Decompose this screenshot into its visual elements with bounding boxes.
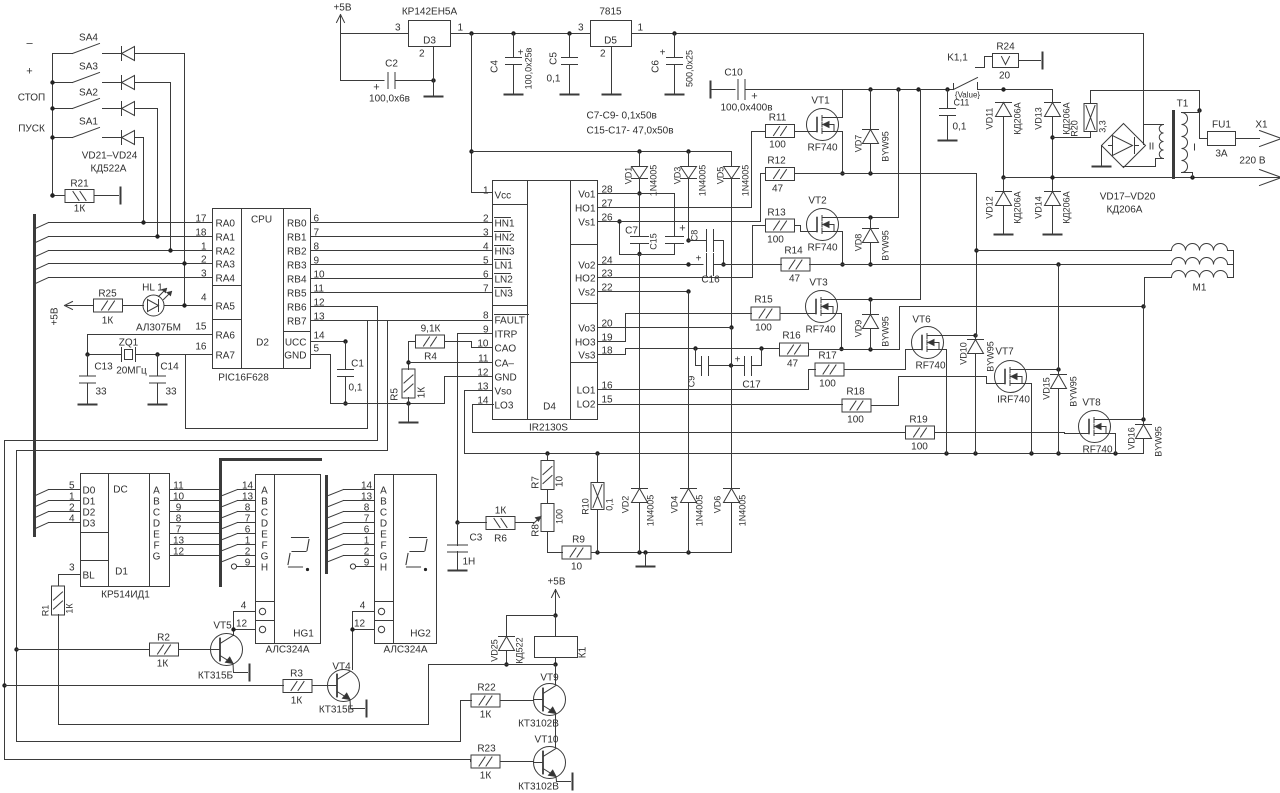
- svg-text:RA0: RA0: [216, 219, 236, 230]
- fuse FU1: [1200, 111, 1208, 139]
- svg-text:1К: 1К: [102, 316, 114, 327]
- svg-text:33: 33: [96, 387, 108, 398]
- svg-text:+: +: [26, 66, 32, 78]
- svg-text:VD10: VD10: [959, 342, 969, 365]
- svg-text:VD5: VD5: [716, 167, 726, 185]
- svg-text:VD17–VD20: VD17–VD20: [1100, 192, 1156, 203]
- capacitor C14: [157, 355, 159, 376]
- svg-text:LO1: LO1: [577, 386, 596, 397]
- svg-text:RB4: RB4: [287, 275, 307, 286]
- svg-text:C: C: [153, 508, 160, 519]
- wire rail1 to R3: [5, 685, 284, 687]
- resistor R24: [976, 57, 993, 68]
- wire wrap RA7-RB7 y428: [186, 355, 368, 429]
- wire GND pin5 down: [311, 355, 331, 404]
- wire vd bottom rail y552: [640, 552, 732, 554]
- svg-text:C: C: [261, 508, 268, 519]
- wire HO3 pin19 to R15: [598, 314, 752, 342]
- capacitor C6: [674, 34, 676, 58]
- wire LO3 pin14 wrap to R19: [473, 405, 906, 433]
- transistor VT10: [534, 747, 566, 779]
- svg-text:R5: R5: [390, 388, 401, 401]
- mosfet VT7: [995, 361, 1027, 393]
- svg-text:G: G: [153, 552, 161, 563]
- svg-text:1: 1: [201, 242, 207, 253]
- svg-text:КТ315Б: КТ315Б: [198, 671, 234, 682]
- wire HG2 E: [329, 534, 344, 540]
- svg-text:47: 47: [789, 274, 801, 285]
- svg-text:3: 3: [483, 228, 489, 239]
- wire LO2 pin15 to R18: [598, 404, 843, 406]
- svg-text:X1: X1: [1255, 120, 1268, 131]
- svg-text:100: 100: [819, 379, 836, 390]
- svg-text:1К: 1К: [417, 387, 428, 399]
- wire HG1 A: [223, 490, 238, 496]
- svg-text:R12: R12: [767, 156, 786, 167]
- svg-text:RA7: RA7: [216, 351, 236, 362]
- resistor R7: [547, 454, 549, 461]
- svg-text:8: 8: [483, 311, 489, 322]
- svg-text:33: 33: [166, 387, 178, 398]
- svg-text:1N4005: 1N4005: [646, 495, 656, 527]
- svg-text:220 В: 220 В: [1239, 156, 1265, 167]
- svg-text:100: 100: [755, 323, 772, 334]
- svg-text:1Н: 1Н: [463, 557, 476, 568]
- svg-text:1: 1: [69, 492, 75, 503]
- wire C7/C15 bottom to Vs1: [620, 222, 675, 255]
- svg-text:C16: C16: [701, 275, 720, 286]
- svg-text:47: 47: [772, 184, 784, 195]
- wire wrap rail1 (RB6 net): [5, 441, 471, 760]
- wire rail D3 to D5: [451, 33, 591, 35]
- svg-text:100,0х6в: 100,0х6в: [369, 94, 410, 105]
- arrow 220V bottom: [1260, 170, 1280, 186]
- svg-text:R8: R8: [531, 524, 542, 537]
- wire D1 out G: [170, 555, 220, 557]
- wire HO1 pin27 to R11: [598, 132, 752, 208]
- svg-text:D3: D3: [423, 36, 436, 47]
- svg-text:5: 5: [483, 256, 489, 267]
- resistor R12: [766, 168, 795, 181]
- diode VD7: [870, 90, 872, 130]
- svg-text:VT6: VT6: [912, 315, 931, 326]
- wire VT7 source: [1022, 384, 1032, 454]
- svg-text:+: +: [679, 223, 685, 235]
- wire VD5col to C9/C17 mid: [731, 328, 733, 366]
- svg-text:C17: C17: [742, 380, 761, 391]
- svg-text:R19: R19: [909, 415, 928, 426]
- svg-text:GND: GND: [284, 351, 306, 362]
- svg-text:11: 11: [173, 481, 184, 492]
- diode of SA1 (VD21-VD24): [109, 137, 122, 139]
- switch SA4: [53, 53, 73, 55]
- svg-text:F: F: [261, 541, 267, 552]
- svg-text:I: I: [1193, 143, 1196, 154]
- svg-text:4: 4: [69, 514, 75, 525]
- svg-text:1N4005: 1N4005: [741, 165, 751, 197]
- diode of SA4 (VD21-VD24): [109, 53, 122, 55]
- svg-text:VD2: VD2: [621, 496, 631, 514]
- svg-text:R25: R25: [98, 289, 117, 300]
- transistor VT4: [328, 670, 360, 702]
- switch SA2: [53, 108, 73, 110]
- resistor R11: [766, 125, 795, 138]
- svg-text:ITRP: ITRP: [495, 330, 518, 341]
- wire UCC to C1: [311, 341, 346, 343]
- svg-text:BYW95: BYW95: [1069, 376, 1079, 407]
- wire HG2 A: [329, 490, 344, 496]
- svg-text:16: 16: [195, 342, 207, 353]
- svg-text:1К: 1К: [480, 710, 492, 721]
- svg-text:R22: R22: [477, 683, 496, 694]
- svg-text:1К: 1К: [495, 506, 507, 517]
- svg-text:CPU: CPU: [251, 215, 272, 226]
- svg-text:100: 100: [769, 140, 786, 151]
- wire HG2 C: [329, 512, 344, 518]
- driver IC D4 IR2130S box: [493, 181, 598, 420]
- wire D1: [49, 500, 81, 502]
- mosfet VT6: [912, 327, 944, 359]
- bus stub: [36, 512, 49, 518]
- ground of bridge: [1101, 146, 1103, 167]
- svg-text:7: 7: [176, 525, 182, 536]
- svg-text:1: 1: [458, 23, 464, 34]
- diode VD15: [1051, 374, 1067, 376]
- wire RA0 pin 17: [49, 222, 213, 224]
- svg-text:10: 10: [555, 476, 566, 488]
- svg-text:+: +: [660, 48, 666, 59]
- diode VD6: [724, 488, 740, 490]
- svg-text:CA–: CA–: [495, 359, 515, 370]
- diode VD25: [507, 615, 556, 617]
- svg-text:E: E: [380, 530, 387, 541]
- resistor R1: [52, 586, 65, 615]
- svg-text:D2: D2: [256, 338, 269, 349]
- svg-text:20: 20: [999, 71, 1011, 82]
- svg-text:1N4005: 1N4005: [649, 165, 659, 197]
- svg-text:LN2: LN2: [495, 275, 514, 286]
- svg-text:Vo1: Vo1: [578, 190, 596, 201]
- wire VT1 drain: [822, 90, 843, 118]
- wire VT3 source to phase C: [833, 314, 842, 350]
- svg-text:IR2130S: IR2130S: [529, 423, 568, 434]
- svg-text:12: 12: [477, 368, 489, 379]
- svg-text:VD13: VD13: [1034, 107, 1044, 130]
- svg-text:АЛС324А: АЛС324А: [383, 645, 427, 656]
- wire rail2 to R2: [17, 649, 149, 651]
- voltage regulator D3 KR142EN5A: [409, 21, 451, 47]
- wires RB0-RB5 to D4 HN/LN inputs: [311, 222, 493, 224]
- svg-text:13: 13: [173, 536, 185, 547]
- diode VD14: [1045, 191, 1061, 193]
- svg-text:HO3: HO3: [575, 338, 596, 349]
- svg-text:VD4: VD4: [670, 496, 680, 514]
- svg-text:R4: R4: [424, 352, 437, 363]
- wire RB6 down: [311, 307, 378, 441]
- svg-text:КР142ЕН5А: КР142ЕН5А: [402, 7, 458, 18]
- svg-text:14: 14: [361, 481, 373, 492]
- svg-text:VD21–VD24: VD21–VD24: [82, 151, 138, 162]
- wire K1 bottom: [429, 664, 556, 666]
- svg-text:14: 14: [314, 331, 326, 342]
- svg-text:B: B: [261, 497, 268, 508]
- svg-text:1: 1: [483, 186, 489, 197]
- wire main 5V rail y33: [341, 33, 409, 35]
- svg-text:10: 10: [571, 562, 583, 573]
- wire D3 pin2 to gnd: [433, 47, 435, 81]
- svg-text:RA4: RA4: [216, 274, 236, 285]
- svg-text:Vcc: Vcc: [495, 191, 512, 202]
- svg-text:VD6: VD6: [713, 496, 723, 514]
- svg-text:F: F: [153, 541, 159, 552]
- svg-text:1К: 1К: [65, 603, 75, 614]
- svg-text:+: +: [696, 254, 702, 265]
- svg-text:HL 1: HL 1: [142, 283, 163, 294]
- svg-text:VD12: VD12: [985, 196, 995, 219]
- svg-text:+: +: [751, 91, 757, 103]
- resistor R4: [416, 335, 445, 348]
- motor M1 winding row2: [1172, 258, 1228, 265]
- thick bus HG2: [325, 477, 328, 573]
- diode VD11: [1003, 102, 1005, 105]
- resistor R5: [402, 369, 415, 398]
- svg-text:47: 47: [787, 359, 799, 370]
- svg-text:7: 7: [364, 514, 370, 525]
- wire switch common rail: [52, 54, 54, 196]
- transformer T1 secondary II: [1144, 124, 1164, 126]
- svg-text:FU1: FU1: [1212, 120, 1231, 131]
- svg-text:R23: R23: [477, 744, 496, 755]
- svg-text:LN1: LN1: [495, 261, 514, 272]
- wire D1 out B: [170, 500, 220, 502]
- svg-text:18: 18: [195, 228, 207, 239]
- svg-text:6: 6: [364, 525, 370, 536]
- capacitor C16: [706, 254, 708, 276]
- svg-text:FAULT: FAULT: [495, 316, 525, 327]
- wire HL1 to RA5: [164, 305, 213, 307]
- svg-text:0,1: 0,1: [349, 383, 363, 394]
- capacitor C10: [737, 80, 739, 100]
- svg-text:RB7: RB7: [287, 317, 307, 328]
- svg-text:D: D: [380, 519, 387, 530]
- bus stub: [36, 237, 49, 243]
- wire R17 to VT6 gate: [844, 350, 917, 370]
- svg-text:3: 3: [201, 269, 207, 280]
- svg-text:1К: 1К: [480, 771, 492, 782]
- svg-text:B: B: [153, 497, 160, 508]
- svg-text:КР514ИД1: КР514ИД1: [101, 590, 150, 601]
- diode VD16: [1136, 424, 1152, 426]
- diode VD1: [639, 152, 641, 167]
- wire R4 to R5: [409, 341, 416, 343]
- svg-text:D1: D1: [115, 567, 128, 578]
- svg-text:100,0х400в: 100,0х400в: [720, 103, 772, 114]
- svg-text:R13: R13: [767, 208, 786, 219]
- svg-text:BYW95: BYW95: [1154, 426, 1164, 457]
- wire D2: [49, 511, 81, 513]
- wire phase C y349 to y306: [842, 307, 1145, 350]
- bus stub: [36, 264, 49, 270]
- wire RA1 pin 18: [49, 236, 213, 238]
- relay K1: [535, 637, 578, 658]
- wire HG2 D: [329, 523, 344, 529]
- svg-text:T1: T1: [1177, 99, 1189, 110]
- svg-text:АЛС324А: АЛС324А: [265, 645, 309, 656]
- svg-text:RB2: RB2: [287, 247, 307, 258]
- svg-text:G: G: [261, 552, 269, 563]
- wire HG1 B: [223, 501, 238, 507]
- svg-text:LO2: LO2: [577, 400, 596, 411]
- wire HG1 G: [223, 556, 238, 562]
- wire RA6 to crystal node: [88, 335, 213, 355]
- svg-text:HO2: HO2: [575, 274, 596, 285]
- svg-text:КТ3102В: КТ3102В: [518, 719, 559, 730]
- wire top rail to bridge: [1143, 34, 1145, 145]
- svg-text:H: H: [261, 563, 268, 574]
- wire phase A riser to motor row1: [976, 174, 978, 336]
- svg-text:R6: R6: [494, 534, 507, 545]
- diode VD3: [688, 152, 690, 167]
- svg-text:C6: C6: [651, 60, 662, 73]
- HG2 bottom cells: [375, 601, 394, 603]
- CPU D2 PIC16F628 box: [213, 209, 311, 369]
- wiper arrow R6 to R8: [515, 522, 534, 524]
- svg-text:C13: C13: [94, 362, 113, 373]
- svg-text:SA4: SA4: [79, 33, 98, 44]
- resistor R22: [471, 694, 500, 707]
- capacitor C13: [87, 355, 89, 376]
- svg-text:HG2: HG2: [410, 629, 431, 640]
- svg-text:C14: C14: [160, 362, 179, 373]
- crystal ZQ1: [88, 354, 122, 356]
- svg-text:RB6: RB6: [287, 303, 307, 314]
- svg-text:RF740: RF740: [807, 143, 837, 154]
- svg-text:Vso: Vso: [495, 387, 513, 398]
- wire RA4 pin 3: [49, 277, 213, 279]
- wire D0: [49, 489, 81, 491]
- svg-text:RA3: RA3: [216, 260, 236, 271]
- svg-text:ПУСК: ПУСК: [18, 124, 45, 135]
- svg-text:RB5: RB5: [287, 289, 307, 300]
- capacitor C15: [674, 194, 676, 237]
- svg-text:3: 3: [578, 23, 584, 34]
- wire HV rail y89: [745, 89, 954, 91]
- capacitor C7: [639, 194, 641, 237]
- svg-text:VT10: VT10: [535, 735, 559, 746]
- resistor R9: [548, 552, 563, 554]
- svg-text:R24: R24: [996, 42, 1015, 53]
- svg-text:SA3: SA3: [79, 62, 98, 73]
- svg-text:C10: C10: [724, 68, 743, 79]
- svg-text:R10: R10: [581, 498, 591, 515]
- transistor VT9: [555, 665, 557, 685]
- motor M1 winding row3: [1145, 278, 1172, 307]
- wire CAO pin10 to R4: [445, 342, 493, 348]
- svg-text:12: 12: [173, 547, 185, 558]
- svg-text:VD8: VD8: [854, 234, 864, 252]
- svg-text:BL: BL: [83, 571, 96, 582]
- resistor R20: [1053, 137, 1091, 139]
- resistor R2: [150, 643, 179, 656]
- indicator HG2 box: [375, 475, 437, 644]
- bus stub: [36, 523, 49, 529]
- resistor R23: [471, 755, 500, 768]
- svg-text:RF740: RF740: [807, 243, 837, 254]
- wire VT6 source: [939, 350, 947, 454]
- svg-text:SA1: SA1: [79, 117, 98, 128]
- svg-text:A: A: [261, 486, 268, 497]
- wire D1 out D: [170, 522, 220, 524]
- svg-text:H: H: [380, 563, 387, 574]
- wire FAULT branch down x387: [387, 321, 389, 451]
- capacitor C8: [689, 240, 707, 242]
- svg-text:RF740: RF740: [915, 361, 945, 372]
- svg-text:R1: R1: [41, 605, 51, 617]
- svg-text:КТ315Б: КТ315Б: [319, 705, 355, 716]
- svg-text:R7: R7: [531, 476, 542, 489]
- bus stub: [36, 251, 49, 257]
- wire GND12 of D4: [445, 377, 493, 404]
- svg-text:Vs2: Vs2: [578, 288, 596, 299]
- diode VD10: [975, 336, 977, 340]
- motor M1 right link: [1228, 251, 1234, 278]
- LED HL1: [123, 305, 144, 307]
- svg-text:R18: R18: [846, 387, 865, 398]
- svg-text:4: 4: [483, 242, 489, 253]
- wire diode top rail y151: [472, 151, 732, 153]
- svg-text:C3: C3: [470, 533, 483, 544]
- wire bottom control rail y453: [465, 453, 1144, 455]
- svg-text:VT9: VT9: [540, 673, 559, 684]
- svg-text:15: 15: [195, 322, 207, 333]
- svg-text:HO1: HO1: [575, 204, 596, 215]
- svg-text:100: 100: [911, 442, 928, 453]
- svg-text:+5В: +5В: [50, 307, 61, 325]
- svg-text:4: 4: [201, 293, 207, 304]
- svg-text:КД522А: КД522А: [91, 164, 127, 175]
- diode VD9: [870, 300, 872, 315]
- capacitor C10 input terminal: [710, 82, 712, 98]
- svg-text:HN1: HN1: [495, 219, 515, 230]
- svg-text:8: 8: [176, 514, 182, 525]
- svg-text:С5: С5: [549, 52, 560, 65]
- wire VD11 to rail y177: [1003, 117, 1005, 178]
- mosfet VT3: [806, 291, 838, 323]
- svg-text:D: D: [153, 519, 160, 530]
- svg-text:Vo2: Vo2: [578, 261, 596, 272]
- svg-text:VT4: VT4: [332, 662, 351, 673]
- wire D1 out F: [170, 544, 220, 546]
- svg-text:2: 2: [419, 49, 425, 60]
- svg-text:RA1: RA1: [216, 233, 236, 244]
- resistor R14: [781, 258, 810, 271]
- resistor R21: [65, 190, 94, 203]
- svg-text:0,1: 0,1: [605, 498, 615, 511]
- svg-text:2: 2: [364, 547, 370, 558]
- svg-text:VT2: VT2: [808, 196, 827, 207]
- wire SA1 to CPU: [184, 54, 186, 264]
- switch SA1: [53, 137, 73, 139]
- svg-text:VD16: VD16: [1127, 427, 1137, 450]
- capacitor C5: [569, 34, 571, 58]
- svg-text:UCC: UCC: [285, 338, 307, 349]
- svg-text:R20: R20: [1070, 120, 1080, 137]
- wire Vo3 pin20 to VD5 col: [598, 327, 732, 329]
- wire HG2 F: [329, 545, 344, 551]
- svg-text:VD9: VD9: [854, 320, 864, 338]
- svg-text:1N4005: 1N4005: [738, 495, 748, 527]
- wire VT4 emitter gnd: [350, 700, 365, 709]
